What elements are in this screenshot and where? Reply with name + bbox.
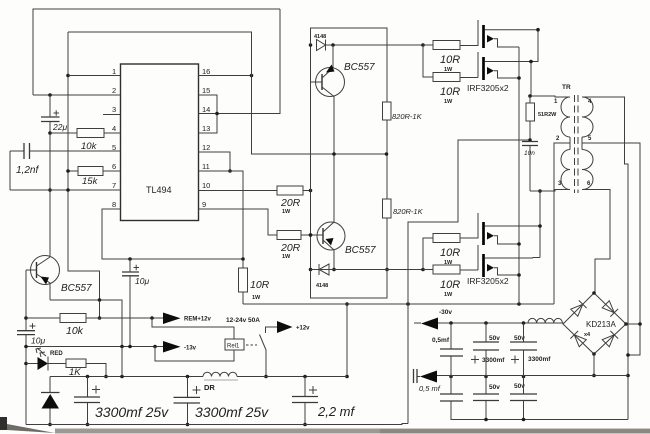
node rail376 x233 junction	[186, 375, 190, 379]
svg-text:x4: x4	[584, 332, 591, 338]
svg-text:1W: 1W	[444, 99, 453, 105]
node x347 rail304 junction	[345, 302, 349, 306]
capacitor C6 3300mf 25v first	[87, 377, 89, 425]
capacitor C4 10u left plus	[30, 323, 36, 329]
wire Q3 base down x26	[25, 270, 27, 425]
wire 20R R6 to Q2 base	[301, 234, 323, 236]
transistor M1 IRF3205 upper	[460, 20, 478, 46]
wire x50 vertical pin2 to Q3	[49, 95, 51, 257]
capacitor C1 22u plus	[54, 110, 60, 115]
svg-text:50v: 50v	[489, 335, 500, 342]
diode D2 4148 lower	[319, 264, 329, 275]
node x243 y259 junction	[241, 257, 245, 261]
svg-text:50v: 50v	[489, 384, 500, 391]
svg-text:1,2nf: 1,2nf	[16, 165, 39, 176]
svg-text:2,2 mf: 2,2 mf	[317, 404, 356, 419]
svg-text:20R: 20R	[280, 197, 301, 209]
wire pin12 to pin11	[199, 152, 231, 171]
svg-text:15: 15	[202, 86, 210, 95]
wire TR pin5 lead down right edge	[582, 143, 640, 355]
node right vertex x640 junction	[638, 322, 642, 326]
svg-text:3300mf 25v: 3300mf 25v	[95, 404, 169, 420]
LED D3 RED emission arrows	[36, 348, 46, 357]
resistor R4 1K	[48, 364, 106, 377]
svg-text:10k: 10k	[81, 141, 98, 152]
wire lower 4148 mirror loop	[311, 270, 388, 299]
wire x347 link rail304 to rail376	[346, 304, 348, 377]
wire lower drains vertical x540	[539, 191, 541, 258]
node Q2 base top junction	[309, 233, 313, 237]
op-amp U1 TL494 body	[121, 64, 199, 221]
svg-text:4: 4	[112, 124, 116, 133]
wire Q3 emitter line y300	[50, 300, 122, 347]
transistor Q2 BC557	[317, 222, 345, 250]
svg-text:1W: 1W	[282, 254, 291, 260]
node bridge right vertex	[624, 322, 628, 326]
capacitor C1 22u	[41, 117, 60, 122]
svg-text:10μ: 10μ	[135, 276, 149, 286]
svg-text:51R2W: 51R2W	[538, 112, 557, 118]
node M3 drain junction	[538, 224, 542, 228]
wire REM line y318	[26, 317, 163, 319]
node -13v x155 branch	[153, 345, 157, 349]
svg-text:1W: 1W	[252, 295, 261, 301]
svg-text:1: 1	[554, 99, 558, 105]
node R7 y154 junction	[385, 152, 389, 156]
transformer TR primary winding	[561, 97, 570, 190]
node rail323 x523.5 junction	[522, 321, 526, 325]
capacitor C2 1,2nf	[24, 143, 30, 159]
resistor R5 20R pin10	[277, 186, 303, 195]
wire pin11 to x=243 vertical	[199, 171, 244, 260]
wire base vertical x310 from diode to lower diode	[310, 45, 312, 270]
resistor R1 10k	[50, 132, 121, 134]
svg-text:0,5mf: 0,5mf	[432, 337, 450, 344]
capacitor C6 3300mf 25v first plus	[92, 386, 100, 394]
svg-text:20R: 20R	[280, 242, 301, 254]
node C6 bottom rail junction	[86, 423, 90, 427]
capacitor C17 0,5mf input small	[414, 369, 418, 383]
wire rail y303	[243, 303, 554, 305]
svg-text:2: 2	[556, 136, 560, 142]
wire relay coil loop lower	[155, 347, 234, 362]
node pin7/x68 junction	[66, 188, 70, 192]
transistor M3 IRF3205 lower	[460, 213, 478, 238]
wire x100 down to REM line	[99, 300, 101, 318]
svg-text:3300mf: 3300mf	[482, 357, 505, 364]
wire pin8 down and right	[102, 209, 243, 259]
svg-text:RED: RED	[50, 351, 63, 357]
transformer TR secondary winding	[582, 97, 593, 190]
svg-text:BC557: BC557	[344, 62, 375, 73]
svg-text:10k: 10k	[66, 325, 84, 337]
svg-text:3: 3	[112, 105, 116, 114]
wire -13v line y346.5	[26, 346, 163, 348]
svg-text:1: 1	[112, 67, 116, 76]
wire pin2 line	[33, 94, 121, 96]
node pin4 vertical mid-rail junction	[626, 374, 630, 378]
wire bridge left vertex to choke	[438, 323, 563, 324]
wire pin16	[199, 75, 252, 77]
wire bridge right vertex to right edge rail	[626, 323, 640, 325]
wire C5 leads	[129, 259, 131, 347]
wire D1 loop over to 820R	[311, 28, 388, 102]
transformer TR core	[575, 95, 579, 193]
resistor R10 10R gate M1	[433, 41, 460, 50]
wire x423 gate link top pair	[423, 45, 433, 77]
node rail376 x305 junction	[303, 375, 307, 379]
svg-text:0,5 mf: 0,5 mf	[419, 384, 441, 393]
wire bottom rail right bank	[451, 419, 629, 421]
resistor R13 10R gate M4	[433, 265, 460, 274]
resistor R12 10R gate M3	[433, 234, 460, 243]
node C16 bottom rail junction	[522, 418, 526, 422]
node top gate node x423	[421, 43, 425, 47]
svg-text:15k: 15k	[82, 176, 99, 187]
wire R7 to y154	[386, 120, 388, 199]
resistor R8 820R-1K lower	[383, 199, 392, 218]
svg-text:12: 12	[202, 143, 210, 152]
transistor Q3 BC557	[31, 256, 60, 285]
node pin2/x50 junction	[48, 93, 52, 97]
wire R8 to gate line	[386, 218, 388, 270]
node C8 bottom rail junction	[303, 423, 307, 427]
node D2 anode junction	[309, 268, 313, 272]
capacitor C12 0,5mf lower	[450, 377, 452, 420]
wire TR pin4 lead and step	[582, 97, 628, 420]
relay switch blade	[260, 335, 267, 377]
node LED anode junction	[24, 362, 28, 366]
svg-text:BC557: BC557	[61, 283, 92, 294]
node D1 anode	[309, 43, 313, 47]
node pin1 junction	[66, 74, 70, 78]
node Q1 collector y154 junction	[332, 152, 336, 156]
node M2 source junction	[517, 76, 521, 80]
node bridge bottom vertex	[592, 352, 596, 356]
inductor L1 filter choke at bridge left	[528, 318, 562, 323]
svg-text:Rel1: Rel1	[227, 344, 240, 350]
node pin16 junction	[250, 74, 254, 78]
node C13 mid rail junction	[484, 375, 488, 379]
diode D5 bridge top-right	[602, 300, 618, 316]
wire pin7 line	[10, 189, 121, 191]
svg-text:TL494: TL494	[146, 185, 172, 195]
node base vertical pin10 junction	[309, 189, 313, 193]
node x347 rail376 junction	[345, 375, 349, 379]
node Q2 base junction	[309, 233, 313, 237]
wire -30v rail y323	[438, 322, 563, 324]
capacitor C4 10u left	[17, 331, 35, 335]
node blade on rail376	[264, 375, 268, 379]
svg-text:3300mf 25v: 3300mf 25v	[195, 404, 269, 420]
svg-text:10R: 10R	[440, 86, 460, 98]
svg-text:4148: 4148	[314, 34, 326, 40]
svg-text:6: 6	[112, 162, 116, 171]
wire pin14 to top rail via x=280	[199, 9, 281, 114]
node Q1 emitter/diode junction	[331, 43, 335, 47]
node R8 gate line junction	[385, 268, 389, 272]
relay Rel1 coil box	[225, 339, 244, 350]
wire sources vertical x519	[518, 47, 520, 304]
wire 10n to TR pin3 line	[529, 146, 531, 192]
node snubber top junction	[528, 94, 532, 98]
arrow second output	[420, 371, 437, 383]
svg-text:10R: 10R	[440, 279, 460, 291]
svg-text:820R-1K: 820R-1K	[392, 112, 423, 121]
svg-text:KD213A: KD213A	[586, 320, 616, 329]
wire TR pin1 lead	[530, 96, 570, 97]
wire top rail y=9	[33, 9, 280, 95]
svg-text:8: 8	[112, 200, 116, 209]
node REM x152 junction	[150, 316, 154, 320]
node rail323 x451 junction	[449, 321, 453, 325]
svg-text:-30v: -30v	[439, 309, 452, 316]
svg-text:IRF3205x2: IRF3205x2	[467, 83, 509, 93]
node lower drains top junction	[538, 189, 542, 193]
svg-text:DR: DR	[204, 383, 215, 392]
diode D7 bridge bottom-right	[602, 331, 618, 347]
wire x243 from 10R to rail	[242, 260, 244, 304]
wire x423 gate link bottom pair	[423, 238, 433, 270]
diode bridge KD213A frame	[563, 293, 626, 354]
arrow -13v	[163, 341, 181, 353]
inductor L2 DR	[203, 372, 237, 376]
svg-text:BC557: BC557	[345, 245, 376, 256]
svg-text:1W: 1W	[444, 292, 453, 298]
wire rail y376 left section	[50, 376, 347, 378]
node C11 mid rail junction	[449, 375, 453, 379]
node -13v x122 junction	[120, 345, 124, 349]
resistor R14 51R2W snubber	[529, 96, 531, 141]
node pin14/15/13 junction	[215, 112, 219, 116]
node base REM junction	[24, 316, 28, 320]
wire TR pin6 lead to bridge top	[582, 190, 610, 293]
resistor R9 10R vertical	[239, 268, 248, 292]
node C7 bottom rail junction	[186, 423, 190, 427]
svg-text:10R: 10R	[440, 54, 460, 66]
wire x122 to rail376	[121, 347, 123, 377]
svg-text:10R: 10R	[250, 279, 270, 291]
wire blade to +12v arrow	[266, 327, 278, 333]
wire second rail y=32 from x=68 to x=251.5 down to y=154	[68, 32, 386, 154]
scan artifact bottom band	[55, 429, 650, 434]
node rail376 x122 junction	[120, 375, 124, 379]
node D2 cathode junction	[332, 268, 336, 272]
transistor M4 IRF3205 lower second	[460, 245, 478, 270]
svg-text:2: 2	[112, 86, 116, 95]
svg-text:820R-1K: 820R-1K	[393, 207, 424, 216]
wire pin1	[68, 75, 121, 77]
resistor R11 10R gate M2	[433, 73, 460, 82]
svg-text:IRF3205x2: IRF3205x2	[467, 276, 509, 286]
svg-text:4148: 4148	[316, 283, 328, 289]
wire TR pin3 lead	[530, 190, 570, 192]
node M4 source junction	[517, 273, 521, 277]
svg-text:3300mf: 3300mf	[528, 356, 551, 363]
resistor R2 15k	[68, 170, 121, 172]
transistor M2 IRF3205 upper second	[460, 52, 478, 78]
wire LED anode lead	[26, 363, 38, 365]
diode D6 bridge bottom-left	[570, 331, 586, 347]
node x100 REM junction	[98, 316, 102, 320]
node bridge top vertex	[592, 291, 596, 295]
wire pin3 stub	[103, 114, 121, 116]
wire TR pin2 center tap down	[554, 143, 570, 304]
wire mid rail y376 right section	[437, 375, 628, 377]
node lower gate node x423	[421, 268, 425, 272]
resistor R3 10k lower	[60, 314, 86, 323]
svg-text:+12v: +12v	[296, 326, 310, 332]
svg-text:13: 13	[202, 124, 210, 133]
wire 20R R5 to base vertical	[303, 190, 311, 192]
node rail323 x486 junction	[484, 321, 488, 325]
node pin8/10u junction	[128, 257, 132, 261]
capacitor C8 2,2mf plus	[309, 386, 317, 394]
svg-text:11: 11	[202, 162, 210, 171]
svg-text:REM+12v: REM+12v	[184, 317, 212, 323]
node 1K to rail376 junction	[104, 375, 108, 379]
svg-text:7: 7	[112, 181, 116, 190]
node pin11 junction	[228, 169, 232, 173]
arrow REM+12v	[163, 313, 181, 325]
relay switch dashed link	[246, 344, 257, 346]
svg-text:12-24v 50A: 12-24v 50A	[226, 317, 260, 324]
svg-text:22μ: 22μ	[52, 122, 67, 132]
transistor Q1 BC557	[316, 68, 345, 97]
svg-text:5: 5	[588, 136, 592, 142]
node x50 pin7 junction	[48, 188, 52, 192]
node M3 source junction	[517, 242, 521, 246]
diode D4 bridge top-left	[570, 300, 586, 316]
wire lower gate line y269.5	[311, 269, 424, 271]
node x50 pin4 junction	[48, 131, 52, 135]
arrow +12v	[277, 321, 293, 333]
node emitter x100 junction	[98, 298, 102, 302]
diode D8 power	[49, 377, 51, 393]
node D8 on bottom rail	[48, 423, 52, 427]
wire pin5 line through C2	[10, 150, 121, 152]
wire pin10	[199, 190, 278, 192]
svg-text:9: 9	[202, 200, 206, 209]
wire bridge bottom vertex down to rail376	[593, 354, 595, 376]
capacitor C5 10u mid plus	[134, 265, 140, 270]
node rail303 x408 junction	[406, 302, 410, 306]
svg-text:10μ: 10μ	[31, 336, 45, 346]
capacitor C7 3300mf 25v second plus	[193, 386, 201, 394]
svg-text:TR: TR	[562, 84, 571, 91]
node snubber mid junction	[528, 138, 532, 142]
svg-text:14: 14	[202, 105, 210, 114]
resistor R6 20R pin9	[277, 231, 301, 240]
wire pin9 to 20R R6	[199, 209, 278, 235]
svg-text:10R: 10R	[440, 247, 460, 259]
node -13v x26 junction	[24, 345, 28, 349]
node -13v x134 junction	[128, 345, 132, 349]
wire pin15-pin13 link via x=217	[199, 95, 218, 133]
node rail376 x87.5 junction	[86, 375, 90, 379]
wire bottom rail left	[26, 424, 408, 425]
node C15 mid rail junction	[522, 375, 526, 379]
svg-text:10: 10	[202, 181, 210, 190]
capacitor C10 10n	[522, 142, 538, 146]
node 15k left junction	[66, 169, 70, 173]
node M2 drain junction	[529, 60, 533, 64]
wire C2 left to pin7 line	[9, 151, 11, 190]
wire snubber mid return x458 x408	[408, 140, 530, 304]
resistor R7 820R-1K upper	[383, 102, 392, 120]
LED D3 RED	[38, 357, 49, 370]
capacitor C5 10u mid	[122, 272, 139, 276]
wire relay coil loop upper	[152, 318, 234, 339]
capacitor C7 3300mf 25v second	[187, 377, 189, 425]
wire x408 lower vertical to rail304	[407, 304, 409, 424]
wire x68 vertical	[68, 32, 100, 300]
capacitor C8 2,2mf	[304, 377, 306, 425]
node rail303 x519 junction	[517, 302, 521, 306]
svg-text:16: 16	[202, 67, 210, 76]
svg-text:-13v: -13v	[184, 346, 197, 352]
svg-text:1W: 1W	[282, 209, 291, 215]
wire D1 cathode to Q1 emitter node	[326, 44, 424, 46]
node C14 bottom rail junction	[484, 418, 488, 422]
